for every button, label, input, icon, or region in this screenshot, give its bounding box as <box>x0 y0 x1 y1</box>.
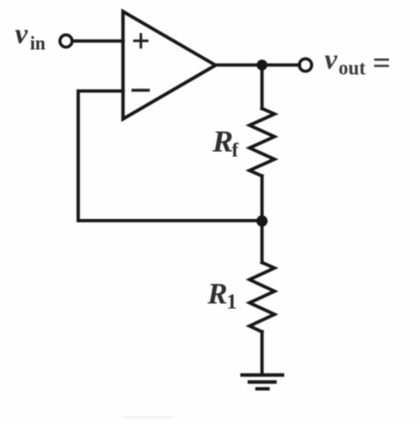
svg-text:R: R <box>212 124 234 159</box>
svg-text:f: f <box>232 140 239 162</box>
svg-text:in: in <box>30 35 46 55</box>
svg-text:v: v <box>325 45 338 76</box>
op-amp pin + (noninverting input marker) <box>135 34 148 47</box>
input terminal circle <box>60 35 72 47</box>
wire from R1 down to ground <box>260 332 263 375</box>
svg-text:1: 1 <box>227 290 238 314</box>
op-amp pin − (inverting input marker) <box>133 89 148 92</box>
faint cropped caption smudge at bottom <box>122 416 174 420</box>
svg-text:v: v <box>15 19 28 50</box>
wire output: from op-amp apex to output terminal <box>216 63 300 66</box>
resistor R1 <box>250 263 275 332</box>
svg-text:R: R <box>207 278 228 311</box>
op-amp U1 <box>123 12 216 120</box>
resistor Rf <box>250 109 275 177</box>
wire feedback: from − input left, down, and right to node B <box>78 91 262 221</box>
svg-text:out: out <box>339 59 367 80</box>
node A (output node) <box>257 60 268 71</box>
wire from node B down to R1 <box>260 221 263 263</box>
svg-text:=: = <box>373 45 391 81</box>
wire from node A down to Rf <box>260 65 263 109</box>
ground <box>242 375 283 389</box>
node B (feedback node) <box>256 215 267 226</box>
wire from input terminal to + input <box>73 39 123 42</box>
output terminal circle <box>299 59 311 71</box>
wire from Rf down to node B <box>260 176 263 221</box>
